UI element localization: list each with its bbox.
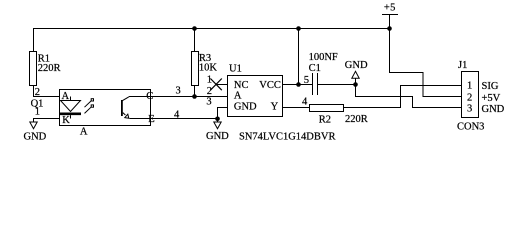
- svg-text:A: A: [62, 91, 70, 102]
- svg-text:SN74LVC1G14DBVR: SN74LVC1G14DBVR: [239, 131, 335, 142]
- svg-text:GND: GND: [482, 104, 505, 115]
- svg-text:GND: GND: [345, 60, 368, 71]
- svg-text:+5V: +5V: [482, 93, 501, 104]
- svg-text:SIG: SIG: [482, 81, 499, 92]
- svg-text:1: 1: [35, 106, 40, 117]
- svg-text:3: 3: [176, 85, 181, 96]
- svg-text:100NF: 100NF: [309, 52, 338, 63]
- svg-text:A: A: [80, 127, 88, 138]
- svg-text:3: 3: [467, 103, 472, 114]
- svg-text:220R: 220R: [38, 63, 61, 74]
- svg-text:Y: Y: [271, 102, 279, 113]
- svg-text:CON3: CON3: [457, 122, 484, 133]
- svg-text:1: 1: [207, 74, 212, 85]
- svg-text:VCC: VCC: [259, 80, 281, 91]
- svg-text:GND: GND: [234, 102, 257, 113]
- svg-text:C: C: [146, 91, 153, 102]
- svg-text:GND: GND: [24, 132, 47, 143]
- svg-text:220R: 220R: [345, 114, 368, 125]
- svg-text:R2: R2: [319, 115, 331, 126]
- svg-text:A: A: [234, 91, 242, 102]
- svg-text:J1: J1: [458, 60, 467, 71]
- svg-text:2: 2: [35, 87, 40, 98]
- svg-text:1: 1: [467, 80, 472, 91]
- svg-text:+5: +5: [384, 3, 396, 14]
- svg-text:E: E: [148, 114, 154, 125]
- svg-text:U1: U1: [229, 63, 242, 74]
- svg-text:GND: GND: [206, 131, 229, 142]
- svg-text:10K: 10K: [199, 63, 218, 74]
- svg-text:5: 5: [304, 75, 309, 86]
- svg-text:C1: C1: [309, 63, 321, 74]
- svg-text:2: 2: [207, 86, 212, 97]
- svg-text:NC: NC: [234, 80, 249, 91]
- svg-text:4: 4: [174, 110, 180, 121]
- svg-text:K: K: [62, 115, 70, 126]
- svg-text:4: 4: [302, 97, 308, 108]
- svg-text:2: 2: [467, 92, 472, 103]
- svg-text:3: 3: [206, 97, 211, 108]
